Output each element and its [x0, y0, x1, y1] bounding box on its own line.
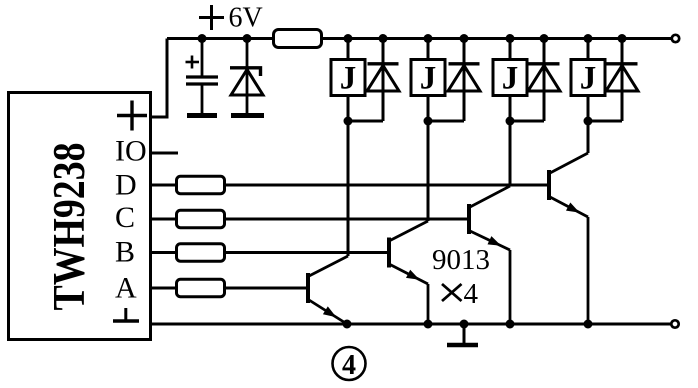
wire IO stub — [151, 152, 178, 155]
transistor Q4 9013 — [549, 153, 588, 324]
svg-text:J: J — [502, 61, 519, 97]
terminal bottom right — [671, 320, 678, 327]
wire collector drop to Q1 — [347, 121, 350, 256]
wire collector drop to Q2 — [427, 121, 430, 221]
pin + label — [117, 101, 147, 131]
pin ground label — [113, 308, 139, 321]
wire collector drop to Q4 — [587, 121, 590, 153]
resistor RB — [177, 244, 225, 262]
node junction J1/VD2 — [344, 117, 353, 126]
node junction J4/VD5 — [584, 117, 593, 126]
terminal top right — [672, 35, 679, 42]
relay coil J2 — [411, 39, 445, 122]
zener diode VD1 — [230, 39, 264, 116]
wire top supply rail left segment — [167, 37, 274, 40]
wire A line to transistor base — [225, 287, 307, 290]
relay coil J1 — [331, 39, 365, 122]
wire D line from IC — [151, 184, 177, 187]
svg-text:A: A — [115, 272, 137, 305]
figure number 4 — [333, 347, 366, 381]
wire from + pin up to supply rail — [151, 39, 167, 118]
svg-text:J: J — [420, 61, 437, 97]
wire collector drop to Q3 — [509, 121, 512, 186]
wire C line to transistor base — [225, 218, 468, 221]
flyback diode VD5 — [588, 39, 638, 122]
capacitor C1 — [186, 39, 218, 116]
value label x4 — [442, 278, 479, 310]
svg-text:J: J — [340, 61, 357, 97]
svg-text:D: D — [115, 169, 137, 202]
IC U1 TWH9238 driver chip — [9, 93, 151, 340]
resistor RC — [177, 210, 225, 228]
relay coil J4 — [571, 39, 605, 122]
resistor R1 on supply rail — [274, 30, 322, 48]
resistor RD — [177, 176, 225, 194]
wire top supply rail right segment — [322, 37, 672, 40]
transistor Q2 9013 — [389, 221, 428, 324]
wire D line to transistor base — [225, 184, 548, 187]
flyback diode VD2 — [348, 39, 399, 122]
ground — [447, 324, 478, 345]
svg-text:B: B — [115, 236, 135, 269]
+6V supply label — [199, 3, 263, 34]
svg-text:4: 4 — [342, 350, 356, 381]
wire B line to transistor base — [225, 251, 388, 254]
svg-text:4: 4 — [464, 278, 479, 310]
node junction J2/VD3 — [424, 117, 433, 126]
node junction J3/VD4 — [506, 117, 515, 126]
svg-text:IO: IO — [115, 135, 147, 168]
wire bottom common rail — [151, 323, 671, 326]
wire B line from IC — [151, 251, 177, 254]
transistor Q1 9013 — [308, 256, 348, 324]
svg-text:6V: 6V — [229, 3, 263, 34]
node supply rail junctions — [198, 34, 627, 43]
svg-text:C: C — [115, 201, 135, 234]
wire C line from IC — [151, 218, 177, 221]
node bottom rail junctions — [343, 320, 593, 329]
resistor RA — [177, 279, 225, 297]
svg-text:9013: 9013 — [432, 244, 490, 276]
transistor Q3 9013 — [469, 186, 510, 324]
relay coil J3 — [493, 39, 527, 122]
flyback diode VD4 — [510, 39, 560, 122]
wire A line from IC — [151, 287, 177, 290]
flyback diode VD3 — [428, 39, 480, 122]
svg-text:J: J — [580, 61, 597, 97]
svg-text:TWH9238: TWH9238 — [44, 143, 94, 311]
capacitor C1 polarity mark — [186, 56, 200, 69]
